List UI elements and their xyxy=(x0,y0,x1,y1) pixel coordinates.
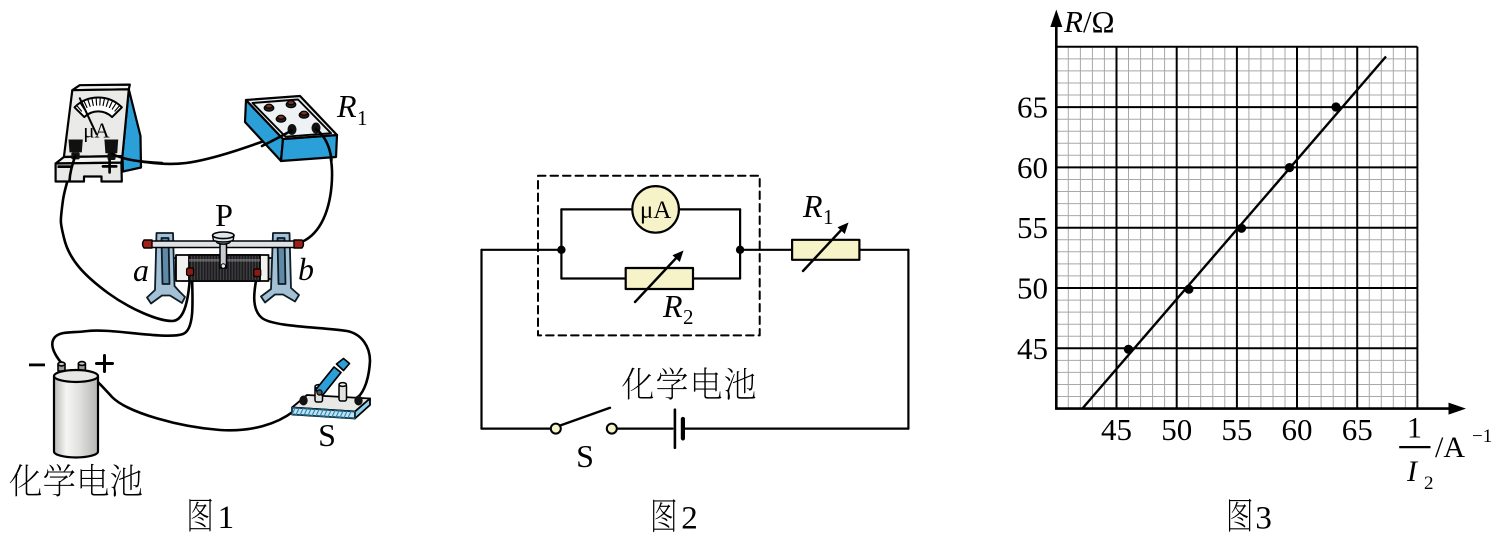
svg-text:65: 65 xyxy=(1342,412,1373,447)
wire branch vertical left xyxy=(560,209,562,278)
svg-text:S: S xyxy=(576,438,594,474)
wire branch vertical right xyxy=(739,209,741,278)
svg-text:R/Ω: R/Ω xyxy=(1063,4,1115,39)
switch lever (blue) xyxy=(316,359,350,396)
ammeter uA xyxy=(632,186,679,233)
caption fig 3 xyxy=(1229,499,1251,532)
meter scale arc xyxy=(75,97,122,117)
svg-text:R: R xyxy=(662,288,683,324)
wire meter minus to rheostat terminal a xyxy=(61,157,190,321)
svg-text:55: 55 xyxy=(1221,412,1252,447)
svg-text:b: b xyxy=(298,251,314,287)
label chemical battery fig2 xyxy=(622,368,653,400)
dashed box (ammeter assembly) xyxy=(538,176,760,336)
svg-text:60: 60 xyxy=(1017,150,1048,185)
R1 terminal posts xyxy=(288,123,321,136)
meter minus sign xyxy=(58,165,72,168)
node left junction xyxy=(557,246,565,254)
svg-text:μA: μA xyxy=(83,119,110,143)
svg-text:1: 1 xyxy=(1407,412,1422,445)
switch S fig2 contacts xyxy=(551,424,561,434)
wire battery minus to rheostat terminal a xyxy=(52,277,192,366)
data point 1 xyxy=(1124,345,1133,354)
switch lever fig2 xyxy=(560,408,610,426)
battery fig2 short plate xyxy=(681,419,685,438)
resistor R2 (variable) xyxy=(626,268,693,289)
battery plus sign xyxy=(97,356,113,372)
switch hatch on front edge xyxy=(292,408,351,418)
svg-text:/A: /A xyxy=(1435,431,1465,464)
battery terminal plus post xyxy=(78,364,85,371)
svg-text:μA: μA xyxy=(640,197,671,224)
wire battery plus to switch left terminal xyxy=(84,371,294,430)
rheostat rail xyxy=(150,241,296,248)
svg-text:a: a xyxy=(133,252,149,288)
label chemical battery fig1 xyxy=(10,464,41,496)
wire meter plus to R1 box xyxy=(112,131,292,164)
node right junction xyxy=(736,246,744,254)
svg-text:55: 55 xyxy=(1017,210,1048,245)
data point 2 xyxy=(1184,285,1193,294)
svg-text:1: 1 xyxy=(357,106,368,130)
svg-text:R: R xyxy=(336,88,357,124)
fitted line xyxy=(1082,57,1386,409)
svg-text:2: 2 xyxy=(683,305,694,329)
battery fig2 long plate xyxy=(674,410,677,448)
meter needle xyxy=(80,98,97,134)
y axis xyxy=(1055,22,1058,410)
battery minus sign xyxy=(29,364,45,367)
switch terminal left xyxy=(299,396,307,406)
svg-text:P: P xyxy=(215,197,233,233)
data point 4 xyxy=(1285,163,1294,172)
rheostat terminal b2 (red) xyxy=(254,269,261,277)
battery terminal minus post xyxy=(58,362,85,371)
wire top branch right xyxy=(679,208,740,210)
caption fig 1 xyxy=(189,499,211,532)
wire right vertical xyxy=(907,250,909,429)
svg-text:45: 45 xyxy=(1017,331,1048,366)
wire bottom branch right xyxy=(693,277,740,279)
svg-text:S: S xyxy=(318,417,336,453)
rheostat coil body xyxy=(167,255,277,281)
rheostat terminal a (red) xyxy=(187,268,194,276)
x axis xyxy=(1055,407,1458,410)
slider P knob xyxy=(216,239,230,244)
wire rheostat terminal b2 to switch right terminal xyxy=(254,275,370,397)
wire left vertical xyxy=(480,250,482,429)
switch posts xyxy=(315,383,347,402)
R1 knobs xyxy=(264,101,309,123)
svg-text:2: 2 xyxy=(1424,473,1434,494)
wire switch to left vertical xyxy=(482,428,552,430)
svg-text:60: 60 xyxy=(1282,412,1313,447)
svg-text:50: 50 xyxy=(1161,412,1192,447)
wire junction to R1 xyxy=(740,249,792,251)
microammeter U1 body xyxy=(56,85,141,182)
wire battery to switch xyxy=(617,428,673,430)
switch terminal right xyxy=(354,396,362,406)
meter plus sign xyxy=(103,160,116,172)
rheostat brackets xyxy=(147,233,299,304)
svg-text:2: 2 xyxy=(681,501,698,537)
svg-text:50: 50 xyxy=(1017,271,1048,306)
svg-text:3: 3 xyxy=(1255,501,1272,537)
wire bottom branch left xyxy=(561,277,625,279)
minor grid xyxy=(1056,47,1417,409)
rail red cap a-end xyxy=(143,240,153,248)
caption fig 2 xyxy=(653,499,675,532)
major grid xyxy=(1056,47,1417,409)
svg-text:65: 65 xyxy=(1017,90,1048,125)
data point 5 xyxy=(1331,102,1340,111)
meter terminal posts xyxy=(69,140,119,161)
wire top branch left xyxy=(561,208,632,210)
svg-text:1: 1 xyxy=(823,205,834,229)
wire bottom right xyxy=(685,428,908,430)
wire R1 box to rheostat rail cap b xyxy=(299,130,332,243)
rail red cap b-end xyxy=(294,240,304,248)
svg-text:1: 1 xyxy=(218,500,235,536)
resistance box R1 xyxy=(245,96,337,161)
svg-text:R: R xyxy=(802,188,823,224)
wire overlay into R1 left post xyxy=(262,131,292,147)
wire overlay at meter plus xyxy=(112,154,162,163)
wire main left xyxy=(482,249,562,251)
wire overlay at meter minus xyxy=(70,157,76,182)
svg-text:45: 45 xyxy=(1101,412,1132,447)
microammeter base slab xyxy=(56,156,123,163)
svg-text:−1: −1 xyxy=(1472,426,1492,447)
wire R1 to right vertical xyxy=(859,249,908,251)
switch S base plate xyxy=(292,395,370,419)
slider P stem xyxy=(220,244,227,268)
wire overlay from R1 right post xyxy=(316,129,332,160)
data point 3 xyxy=(1237,224,1246,233)
resistor R1 (variable) xyxy=(792,240,859,260)
